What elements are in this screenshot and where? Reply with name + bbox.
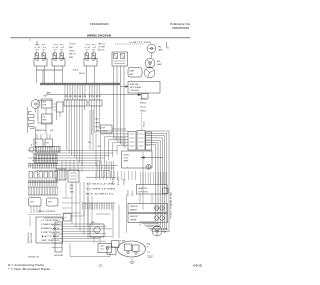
svg-text:CAB. IN. HARNESS 16 GA WH: CAB. IN. HARNESS 16 GA WH: [169, 192, 172, 219]
svg-text:ORG: ORG: [96, 131, 101, 133]
svg-text:→4.5: →4.5: [91, 47, 96, 49]
svg-text:0405: 0405: [193, 264, 203, 268]
svg-text:3-5 WHT 16 GRN: 3-5 WHT 16 GRN: [86, 189, 117, 191]
svg-text:4→45: 4→45: [35, 47, 41, 49]
svg-text:WIRING DIAGRAM: WIRING DIAGRAM: [87, 33, 111, 37]
svg-text:→4.5: →4.5: [41, 47, 46, 49]
svg-text:SW2: SW2: [48, 202, 52, 204]
svg-text:BLK-16 RED-14: BLK-16 RED-14: [86, 194, 113, 196]
svg-text:16-3: 16-3: [88, 142, 91, 144]
svg-text:WHT-12: WHT-12: [98, 44, 105, 46]
svg-text:CONT LT 115V: CONT LT 115V: [129, 42, 153, 44]
svg-text:DEFROST: DEFROST: [130, 216, 138, 218]
svg-text:LT GRN-WHT: LT GRN-WHT: [41, 220, 60, 222]
svg-text:# = Functioning Parts: # = Functioning Parts: [8, 263, 45, 267]
svg-text:MOTOR ASM: MOTOR ASM: [130, 86, 141, 89]
svg-text:LT BLU: LT BLU: [69, 44, 76, 46]
svg-text:WHT: WHT: [96, 123, 100, 125]
svg-text:BLK-16: BLK-16: [73, 70, 78, 72]
svg-text:SOL: SOL: [50, 130, 54, 132]
svg-text:EVAP: EVAP: [130, 70, 135, 73]
svg-text:WATER VLV: WATER VLV: [36, 129, 47, 132]
svg-text:4→45: 4→45: [53, 47, 59, 49]
svg-text:REF: REF: [157, 61, 160, 63]
svg-text:YEL-16: YEL-16: [140, 107, 146, 109]
svg-text:HEATER: HEATER: [130, 208, 137, 211]
svg-text:LT GRN: LT GRN: [98, 46, 105, 48]
svg-text:COMP: COMP: [120, 241, 126, 243]
svg-text:FRS26ZRGMC: FRS26ZRGMC: [90, 22, 109, 26]
svg-text:WHT-16: WHT-16: [79, 73, 85, 75]
svg-text:BRN-16: BRN-16: [140, 103, 146, 105]
svg-text:PART CONTROL: PART CONTROL: [38, 210, 56, 213]
svg-text:ORG-1: ORG-1: [69, 50, 75, 52]
svg-text:RED 16: RED 16: [69, 54, 76, 56]
svg-text:DEFROST: DEFROST: [130, 206, 138, 208]
svg-text:DEF: DEF: [102, 128, 105, 130]
svg-text:BRN: BRN: [69, 57, 74, 59]
svg-text:21: 21: [99, 264, 103, 268]
svg-text:DEF CNTRL: DEF CNTRL: [139, 192, 149, 194]
svg-text:WIRE COLOR: WIRE COLOR: [31, 232, 33, 243]
svg-text:115V 60HZ: 115V 60HZ: [130, 90, 140, 92]
svg-text:LT-GRN: LT-GRN: [124, 178, 126, 185]
svg-text:BLK-16: BLK-16: [132, 191, 134, 196]
svg-text:THERM: THERM: [130, 219, 137, 221]
svg-text:→4.5: →4.5: [59, 47, 64, 49]
svg-text:5995350929: 5995350929: [172, 26, 189, 30]
svg-text:GRN-16: GRN-16: [140, 111, 146, 113]
svg-text:SW1: SW1: [30, 202, 34, 204]
svg-text:EVAP FAN: EVAP FAN: [130, 83, 139, 86]
svg-text:ICE: ICE: [41, 236, 60, 238]
svg-text:FRZ: FRZ: [158, 47, 161, 49]
svg-text:THERM: THERM: [102, 131, 109, 133]
svg-text:ORG-22: ORG-22: [128, 190, 130, 196]
svg-text:* = Non Illustrated Parts: * = Non Illustrated Parts: [8, 267, 51, 271]
svg-text:BLK-14: BLK-14: [98, 49, 104, 51]
svg-text:RED-12: RED-12: [144, 121, 146, 127]
svg-text:ST: ST: [147, 247, 149, 249]
svg-text:GROUND CKT: GROUND CKT: [28, 257, 39, 259]
svg-text:ADAPTIVE: ADAPTIVE: [139, 187, 148, 190]
svg-text:1-6 BLK 2-4 ORG: 1-6 BLK 2-4 ORG: [86, 184, 116, 186]
svg-text:CONT PNL SW: CONT PNL SW: [41, 232, 61, 234]
svg-text:J1 J2 J3 J4 J5: J1 J2 J3 J4 J5: [64, 96, 86, 98]
svg-text:P1 P2: P1 P2: [89, 96, 101, 98]
svg-text:4→45: 4→45: [85, 47, 91, 49]
svg-text:COLD: COLD: [124, 158, 129, 160]
svg-text:BLK-WHT: BLK-WHT: [118, 177, 120, 185]
svg-text:GROUND: GROUND: [54, 255, 64, 257]
svg-text:CNTRL: CNTRL: [124, 155, 130, 157]
